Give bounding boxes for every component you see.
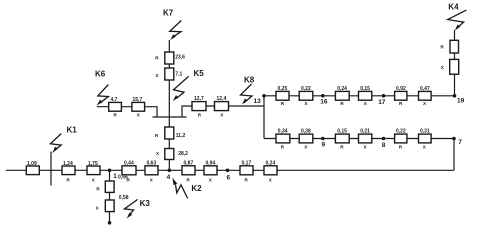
- node 17: [378, 94, 386, 106]
- svg-text:0,24: 0,24: [266, 160, 276, 166]
- resistor X 0,38 middle row: [299, 129, 313, 150]
- svg-text:8: 8: [382, 142, 386, 149]
- svg-text:0,87: 0,87: [184, 160, 194, 166]
- resistor R 0,92 top row: [395, 86, 407, 106]
- fault K3: [124, 199, 150, 218]
- svg-text:0,22: 0,22: [301, 86, 311, 92]
- svg-text:28,2: 28,2: [178, 151, 188, 157]
- fault K8: [241, 76, 255, 105]
- svg-text:0,63: 0,63: [147, 160, 157, 166]
- resistor R 0,34 middle row: [276, 129, 290, 150]
- resistor 1,09: [26, 161, 39, 175]
- node 1: [108, 169, 118, 180]
- resistor R 23,6: [155, 52, 185, 64]
- svg-text:K5: K5: [194, 69, 205, 78]
- svg-text:1,75: 1,75: [88, 161, 98, 167]
- wire main bottom bus: [6, 169, 454, 171]
- svg-text:4: 4: [167, 174, 171, 181]
- resistor R K4 branch: [441, 40, 459, 53]
- resistor X 15,7: [132, 97, 145, 118]
- resistor X 0,31 middle row: [419, 129, 432, 150]
- svg-text:0,25: 0,25: [278, 86, 288, 92]
- svg-text:K6: K6: [95, 70, 106, 79]
- svg-text:0,17: 0,17: [242, 160, 252, 166]
- node 7: [452, 137, 462, 147]
- resistor X 0,22 top row: [299, 86, 313, 106]
- resistor R 4,7: [109, 97, 122, 118]
- svg-text:0,15: 0,15: [360, 86, 370, 92]
- wire middle row: [264, 138, 454, 140]
- fault K7: [163, 9, 181, 41]
- fault K5: [173, 69, 204, 101]
- node 13: [254, 94, 266, 105]
- resistor X 0,21 middle row: [359, 129, 372, 150]
- svg-text:1: 1: [113, 173, 117, 180]
- svg-text:0,58: 0,58: [119, 195, 129, 201]
- svg-text:12,4: 12,4: [217, 96, 227, 102]
- svg-text:11,2: 11,2: [176, 133, 186, 139]
- resistor X K4 branch: [441, 59, 459, 74]
- resistor R 0,24 top row: [335, 86, 349, 106]
- svg-text:9: 9: [322, 142, 326, 149]
- wire bus bar: [153, 116, 187, 118]
- resistor X 7,1: [156, 68, 183, 80]
- resistor R 0,15 middle row: [335, 129, 349, 150]
- svg-text:0,38: 0,38: [301, 129, 311, 135]
- svg-text:0,24: 0,24: [337, 86, 347, 92]
- node 19: [453, 94, 465, 104]
- svg-text:0,22: 0,22: [396, 129, 406, 135]
- resistor X 0,47 top row: [419, 86, 432, 106]
- resistor R 0,17: [240, 160, 253, 182]
- resistor R 1,24: [62, 161, 75, 183]
- resistor X 0,94: [204, 160, 217, 182]
- svg-text:0,56: 0,56: [118, 174, 128, 180]
- svg-text:12,7: 12,7: [194, 96, 204, 102]
- svg-text:13: 13: [254, 98, 262, 105]
- wire branch below node 1: [109, 170, 111, 223]
- svg-text:K8: K8: [244, 76, 255, 85]
- svg-text:19: 19: [457, 97, 465, 104]
- wire vertical trunk: [168, 40, 170, 170]
- resistor X 1,75: [87, 161, 100, 183]
- resistor R 11,2: [155, 127, 185, 139]
- svg-text:6: 6: [227, 175, 231, 182]
- wire node 13 drop: [263, 96, 265, 139]
- svg-text:1,09: 1,09: [27, 161, 37, 167]
- resistor X 12,4: [215, 96, 229, 117]
- svg-text:0,31: 0,31: [420, 129, 430, 135]
- resistor R 0,44: [122, 160, 136, 182]
- svg-text:4,7: 4,7: [111, 97, 118, 103]
- svg-text:23,6: 23,6: [175, 54, 185, 60]
- svg-text:K1: K1: [67, 126, 78, 135]
- resistor R 0,22 middle row: [395, 129, 407, 150]
- svg-text:K7: K7: [163, 9, 174, 18]
- svg-text:16: 16: [320, 98, 328, 105]
- fault K1: [50, 126, 77, 154]
- svg-text:0,94: 0,94: [206, 160, 216, 166]
- resistor R 12,7: [192, 96, 206, 117]
- wire K1 fault tick: [50, 152, 52, 186]
- svg-text:0,47: 0,47: [420, 86, 430, 92]
- node 16: [320, 94, 328, 105]
- wire K4 branch: [454, 30, 456, 96]
- resistor X 28,2: [156, 149, 188, 160]
- terminal dot node1 branch: [108, 221, 112, 225]
- resistor R 0,87: [182, 160, 195, 182]
- svg-text:7,1: 7,1: [175, 72, 182, 78]
- svg-text:0,92: 0,92: [396, 86, 406, 92]
- resistor X 0,58: [96, 195, 129, 212]
- node 9: [321, 137, 326, 149]
- wire K6 branch: [97, 107, 157, 117]
- resistor R 0,56: [96, 174, 128, 192]
- svg-text:K2: K2: [191, 184, 202, 193]
- fault K4: [448, 3, 467, 31]
- resistor R 0,25 top row: [276, 86, 289, 106]
- svg-text:0,15: 0,15: [337, 129, 347, 135]
- fault K2: [172, 178, 202, 199]
- svg-text:K3: K3: [140, 199, 151, 208]
- svg-text:7: 7: [458, 139, 462, 146]
- resistor X 0,24: [264, 160, 277, 182]
- svg-text:0,34: 0,34: [278, 129, 288, 135]
- wire top row: [264, 95, 455, 97]
- svg-text:1,24: 1,24: [63, 161, 73, 167]
- node 8: [382, 137, 386, 150]
- svg-text:17: 17: [378, 99, 386, 106]
- fault K6: [95, 70, 108, 106]
- svg-text:0,21: 0,21: [360, 129, 370, 135]
- svg-text:K4: K4: [448, 3, 459, 12]
- node 6: [226, 169, 231, 182]
- wire branch to 12,7: [182, 106, 264, 117]
- wire riser to node 7: [453, 139, 455, 171]
- svg-text:0,44: 0,44: [124, 160, 134, 166]
- node 4: [167, 169, 172, 182]
- svg-text:15,7: 15,7: [133, 97, 143, 103]
- resistor X 0,15 top row: [359, 86, 372, 106]
- resistor X 0,63: [145, 160, 158, 182]
